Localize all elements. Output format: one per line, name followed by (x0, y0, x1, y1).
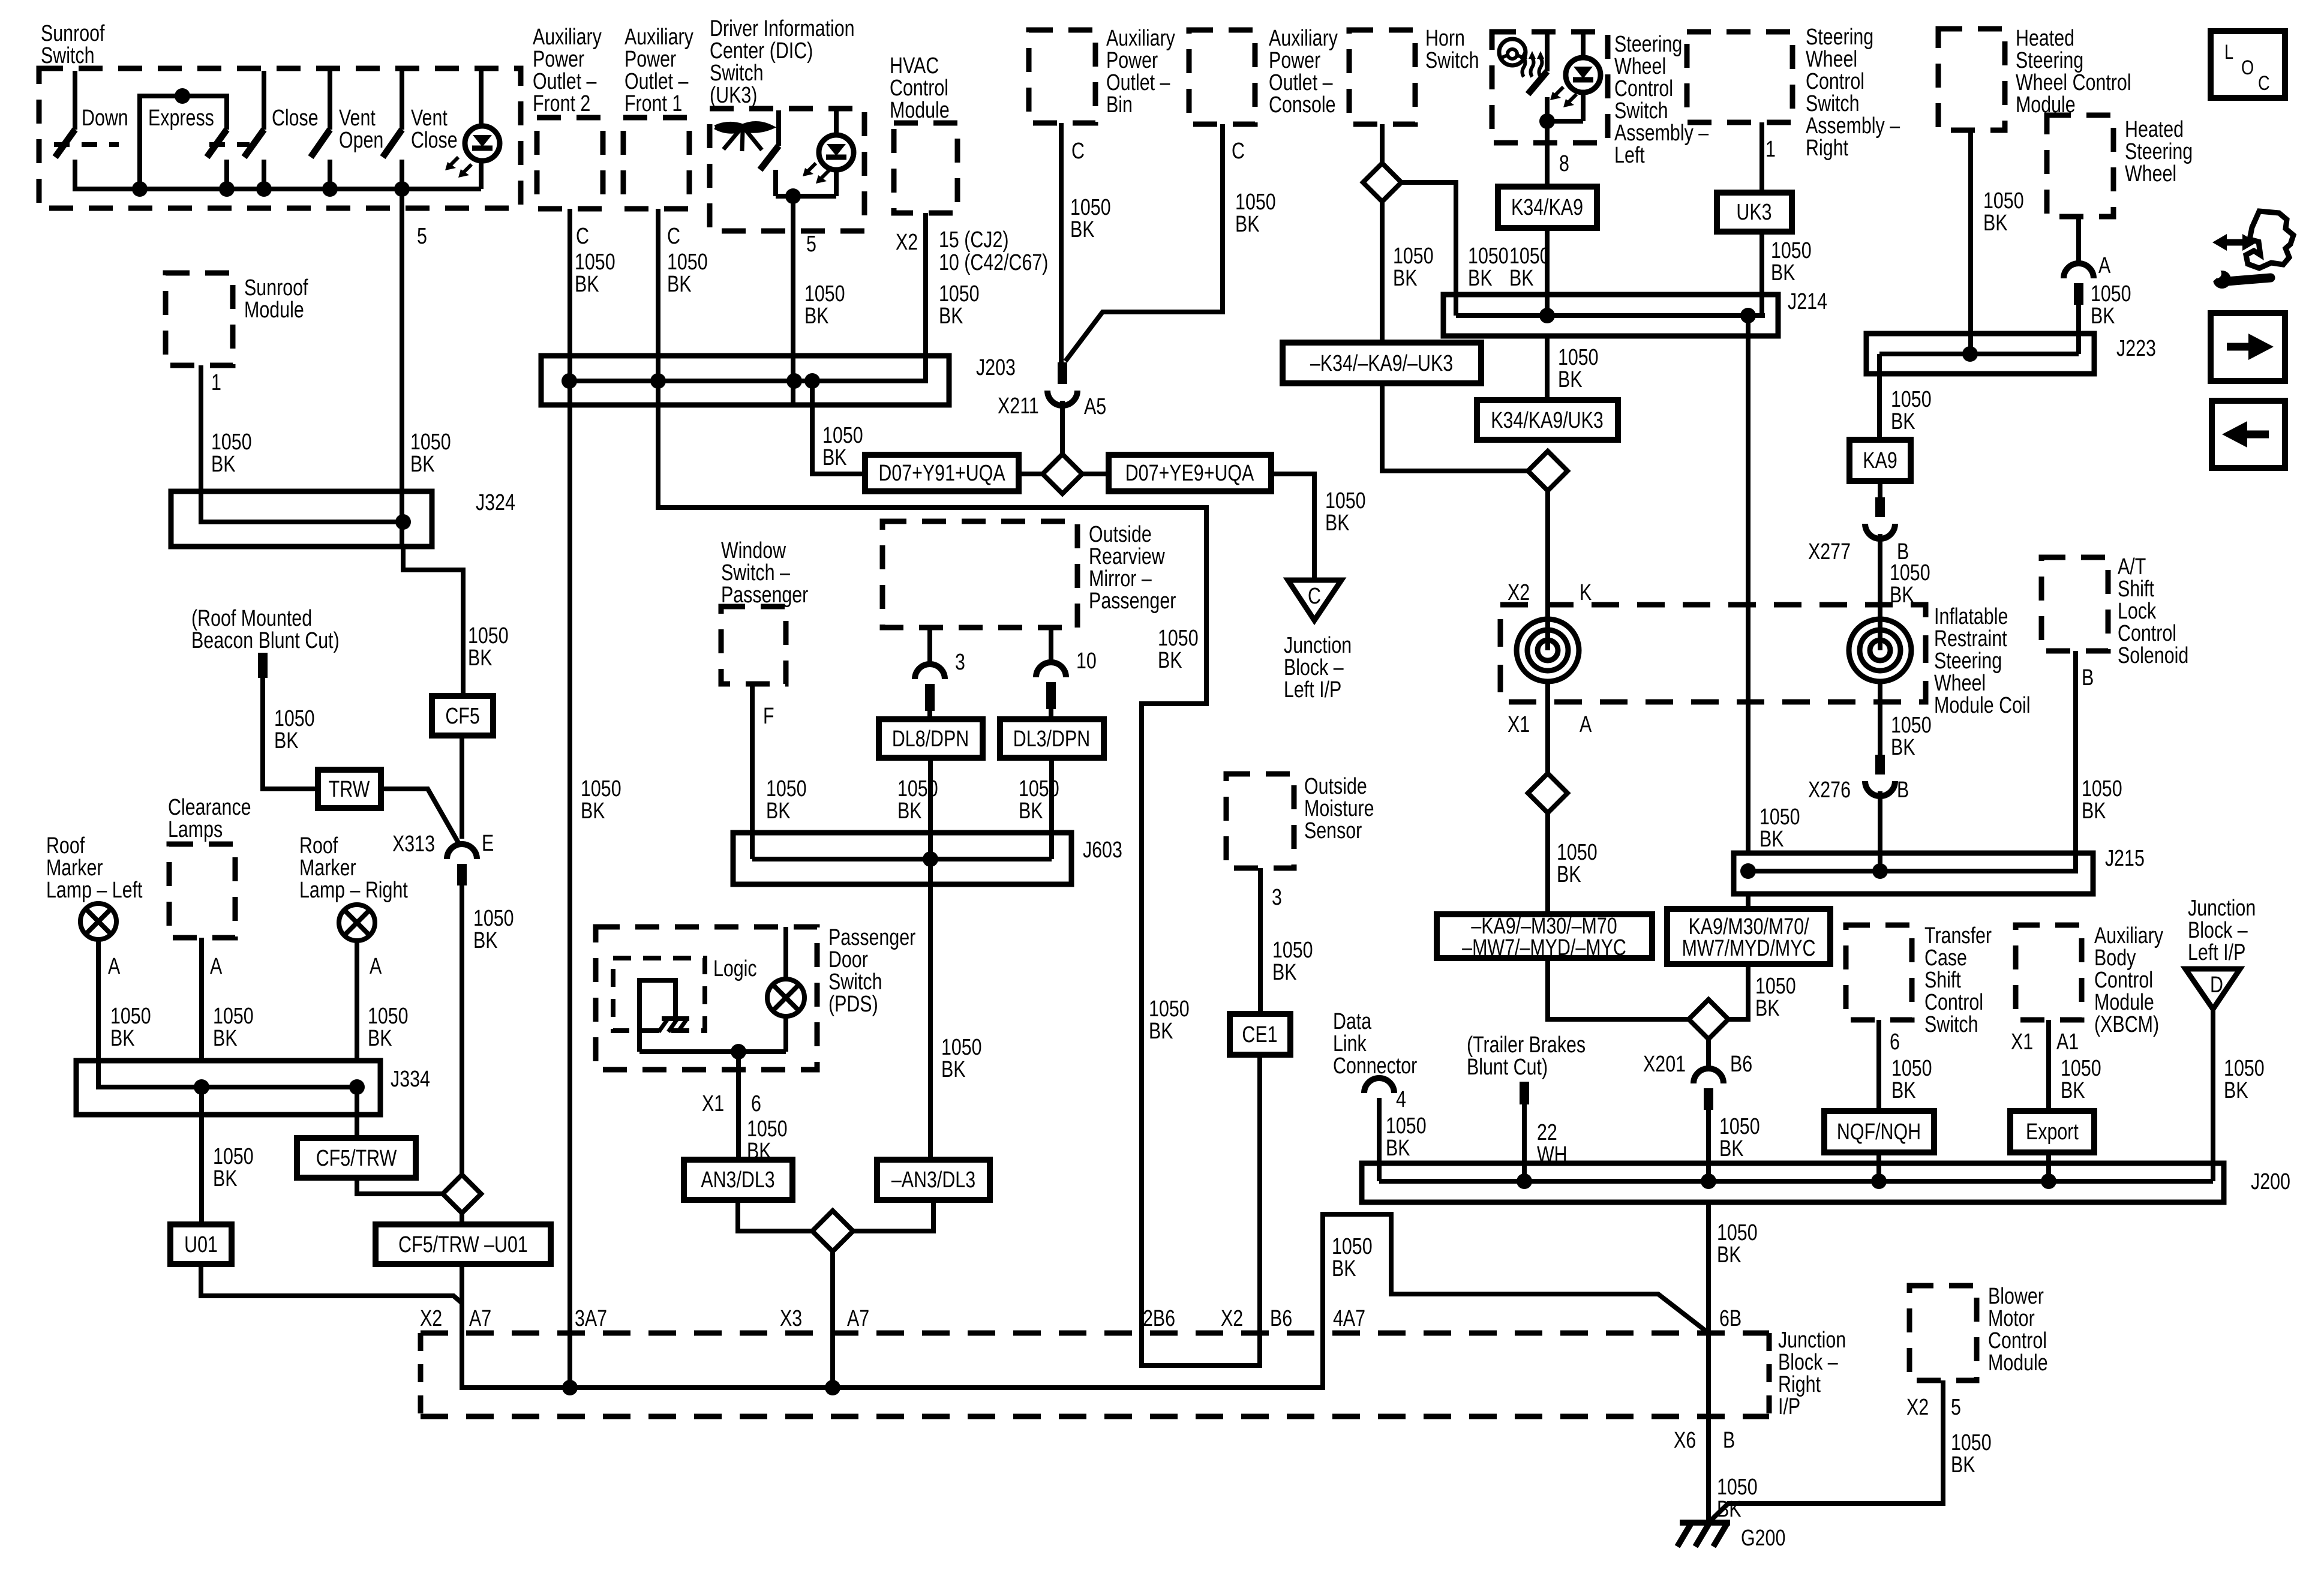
wire sunroof switch pin 5 to J324 (400, 189, 404, 547)
svg-text:J214: J214 (1788, 289, 1827, 314)
option box AN3/DL3 (684, 1160, 792, 1200)
wire clearance lamps pin A (199, 938, 204, 1061)
wire diamond to junction block X3-A7 (830, 1251, 835, 1388)
svg-text:SunroofModule: SunroofModule (244, 275, 308, 323)
DIC switch post and blade (776, 110, 781, 146)
wire NQF/NQH to J200 (1876, 1152, 1881, 1181)
switch Express bridge (140, 96, 227, 189)
svg-text:1050BK: 1050BK (1951, 1430, 1992, 1478)
svg-text:X2: X2 (1221, 1306, 1243, 1331)
svg-text:Export: Export (2026, 1119, 2079, 1145)
blower motor control module box (1909, 1286, 1977, 1380)
wire AN3/DL3 to diamond (738, 1200, 812, 1231)
wire CF5/TRW -U01 to junction block right pin A7 (460, 1264, 464, 1386)
svg-text:1050BK: 1050BK (939, 281, 980, 329)
svg-text:C: C (1071, 139, 1085, 164)
svg-text:L: L (2224, 40, 2233, 64)
svg-text:SteeringWheelControlSwitchAsse: SteeringWheelControlSwitchAssembly –Left (1614, 32, 1709, 168)
aux power outlet front 2 box (537, 118, 603, 209)
option box KA9/M30/M70/MW7/MYD/MYC (1667, 909, 1830, 964)
junction block J214 (1443, 295, 1778, 336)
wire clearance through J334 to U01 (199, 1087, 204, 1224)
svg-text:X201: X201 (1643, 1052, 1686, 1077)
node J214 splice out (1740, 308, 1756, 323)
wire diamond to D07+YE9 box (1082, 472, 1109, 476)
terminal mirror pin 10 (1046, 682, 1056, 709)
switch Vent Open (328, 71, 332, 130)
wire coil right to X276 (1878, 682, 1882, 755)
svg-text:Express: Express (148, 106, 214, 131)
wire CF5/TRW to diamond (357, 1178, 443, 1194)
svg-text:4: 4 (1396, 1087, 1406, 1112)
junction block left IP triangle C (1288, 580, 1341, 620)
svg-text:(Roof MountedBeacon Blunt Cut): (Roof MountedBeacon Blunt Cut) (191, 606, 340, 653)
svg-text:A5: A5 (1084, 394, 1106, 419)
aux power outlet bin box (1029, 30, 1095, 123)
node J200 splice 3 (1871, 1173, 1887, 1189)
svg-text:6: 6 (751, 1091, 761, 1116)
A/T shift lock control solenoid box (2041, 557, 2108, 651)
svg-text:1050BK: 1050BK (1890, 560, 1930, 608)
svg-text:BlowerMotorControlModule: BlowerMotorControlModule (1988, 1284, 2048, 1376)
wire front1 pin C to J203 (656, 209, 660, 405)
svg-text:1050BK: 1050BK (1149, 996, 1190, 1044)
svg-text:TRW: TRW (329, 777, 370, 802)
wire K34/KA9 to J214 (1545, 228, 1550, 316)
svg-text:1050BK: 1050BK (1891, 1056, 1932, 1103)
svg-text:RoofMarkerLamp – Left: RoofMarkerLamp – Left (46, 833, 143, 903)
sunroof switch LED (465, 126, 500, 161)
svg-text:D07+YE9+UQA: D07+YE9+UQA (1125, 461, 1254, 486)
svg-text:5: 5 (1951, 1395, 1961, 1420)
svg-text:1050BK: 1050BK (1235, 190, 1276, 237)
svg-text:E: E (482, 831, 494, 856)
svg-text:3A7: 3A7 (575, 1306, 607, 1331)
svg-text:1050BK: 1050BK (575, 250, 615, 297)
svg-text:JunctionBlock –Left I/P: JunctionBlock –Left I/P (1284, 633, 1352, 703)
wire horn diamond to J214 (1401, 182, 1456, 316)
option box DL8/DPN (879, 719, 983, 758)
wire mirror 10 to DL3/DPN (1049, 709, 1053, 719)
DIC LED (834, 110, 839, 135)
splice diamond D07 (1043, 454, 1082, 494)
wire steering right pin 1 to UK3 (1759, 122, 1764, 193)
switch coupling dashed link (54, 142, 119, 147)
svg-text:X211: X211 (998, 394, 1039, 419)
switch Down (73, 71, 77, 130)
ground G200 (1680, 1520, 1730, 1526)
svg-text:Close: Close (272, 106, 319, 131)
svg-text:B: B (1723, 1428, 1735, 1453)
svg-text:1050BK: 1050BK (1158, 626, 1199, 673)
svg-text:DL8/DPN: DL8/DPN (892, 727, 969, 752)
svg-text:Logic: Logic (713, 956, 757, 981)
svg-text:4A7: 4A7 (1333, 1306, 1365, 1331)
wire HSWCM to J223 (1968, 130, 1973, 354)
wire X211 to splice diamond (1060, 401, 1065, 454)
wire J214 to J215 (1746, 316, 1750, 853)
svg-text:O: O (2241, 56, 2254, 79)
sunroof LED light arrows (448, 157, 458, 167)
svg-text:J215: J215 (2105, 846, 2145, 871)
connector X276 cup (1865, 781, 1895, 796)
svg-text:1: 1 (211, 370, 221, 395)
wire beacon to TRW (263, 678, 318, 789)
wire diamond to D07+Y91 box (1019, 472, 1043, 476)
connector X313 cup (447, 844, 477, 859)
wire PDS X1-6 to AN3/DL3 (736, 1052, 741, 1160)
node J203 splice D (804, 373, 820, 389)
svg-text:1050BK: 1050BK (1983, 188, 2024, 236)
splice diamond below coil (1528, 773, 1568, 813)
sunroof switch enclosure (39, 68, 521, 208)
svg-text:C: C (1232, 139, 1245, 164)
svg-text:DL3/DPN: DL3/DPN (1013, 727, 1090, 752)
wire X276 to J215 (1878, 791, 1882, 871)
wire J324 to CF5 (403, 547, 463, 696)
svg-text:TransferCaseShiftControlSwitch: TransferCaseShiftControlSwitch (1924, 923, 1992, 1037)
svg-text:1050BK: 1050BK (822, 423, 863, 470)
wire J203 to D07+Y91+UQA (812, 381, 865, 474)
repair info icon wrench (2227, 278, 2271, 281)
express bridge junction (175, 88, 190, 104)
wire TRW to X313 (381, 789, 460, 845)
option box -K34/-KA9/-UK3 (1283, 343, 1481, 383)
svg-text:J324: J324 (476, 490, 515, 515)
fuse box CF5/TRW -U01 (376, 1224, 551, 1264)
svg-text:10: 10 (1076, 649, 1097, 674)
roof marker lamp right (339, 905, 375, 941)
wire HVAC X2 to J203 (923, 213, 928, 381)
wire XBCM X1-A1 to Export (2046, 1020, 2051, 1111)
svg-text:15 (CJ2): 15 (CJ2) (939, 227, 1009, 253)
svg-text:1050BK: 1050BK (1558, 345, 1599, 392)
wire DL3/DPN to J603 (1049, 758, 1054, 859)
junction block J324 (171, 491, 432, 547)
wire diamond to CF5/TRW -U01 box (460, 1213, 464, 1224)
node J603 splice (923, 851, 938, 867)
svg-text:1050BK: 1050BK (2224, 1056, 2265, 1103)
wire -AN3/DL3 to diamond (853, 1200, 933, 1231)
option box Export (2010, 1111, 2094, 1152)
svg-text:Driver InformationCenter (DIC): Driver InformationCenter (DIC)Switch(UK3… (710, 16, 855, 108)
connector HSW cup (2064, 263, 2094, 278)
svg-text:C: C (667, 224, 680, 249)
svg-text:3: 3 (1272, 885, 1282, 910)
junction block right internal bus (462, 1214, 1709, 1388)
fuse box CF5/TRW (297, 1138, 416, 1178)
fuse box K34/KA9 (1498, 187, 1597, 228)
svg-text:X2: X2 (420, 1306, 442, 1331)
wire CF5 to X313 (460, 736, 464, 839)
connector X211 terminal (1058, 362, 1067, 384)
svg-text:JunctionBlock –RightI/P: JunctionBlock –RightI/P (1778, 1328, 1846, 1419)
svg-text:G200: G200 (1741, 1526, 1785, 1551)
svg-text:A: A (1580, 712, 1592, 737)
wire -KA9 box to X201 diamond (1548, 958, 1689, 1019)
steering left switch post and blade (1545, 32, 1550, 71)
PDS logic internal loop (639, 980, 675, 1052)
svg-text:CF5/TRW –U01: CF5/TRW –U01 (398, 1232, 528, 1257)
wire sunroof module pin 1 to J324 (199, 365, 203, 522)
svg-text:1050BK: 1050BK (213, 1144, 254, 1191)
wire mirror pin 10 (1049, 628, 1053, 664)
node J200 splice 4 (2041, 1173, 2056, 1189)
svg-text:J223: J223 (2116, 336, 2156, 361)
steering wheel icon (1499, 39, 1526, 65)
svg-text:HeatedSteeringWheel ControlMod: HeatedSteeringWheel ControlModule (2016, 26, 2131, 118)
wire steering left pin 8 to K34/KA9 (1545, 121, 1550, 187)
forward arrow box (2211, 313, 2285, 381)
svg-text:AuxiliaryBodyControlModule(XBC: AuxiliaryBodyControlModule(XBCM) (2094, 923, 2164, 1037)
node J203 splice C (786, 373, 802, 389)
svg-text:A1: A1 (2056, 1029, 2079, 1055)
junction block J203 (541, 356, 949, 405)
wire J603 to -AN3/DL3 (928, 884, 933, 1160)
aux power outlet front 1 box (623, 118, 689, 209)
svg-text:NQF/NQH: NQF/NQH (1837, 1119, 1921, 1145)
svg-text:PassengerDoorSwitch(PDS): PassengerDoorSwitch(PDS) (828, 925, 915, 1017)
svg-text:WindowSwitch –Passenger: WindowSwitch –Passenger (721, 538, 808, 608)
svg-text:OutsideMoistureSensor: OutsideMoistureSensor (1304, 774, 1374, 843)
transfer case shift control switch box (1846, 925, 1912, 1020)
svg-text:3: 3 (955, 650, 965, 675)
svg-text:MW7/MYD/MYC: MW7/MYD/MYC (1682, 936, 1816, 961)
junction block J200 (1362, 1163, 2224, 1202)
svg-text:OutsideRearviewMirror –Passeng: OutsideRearviewMirror –Passenger (1089, 522, 1176, 614)
wire horn diamond to -K34 box (1380, 202, 1385, 343)
svg-text:1050BK: 1050BK (1717, 1475, 1758, 1522)
outside rearview mirror box (882, 521, 1077, 628)
svg-text:B6: B6 (1270, 1306, 1292, 1331)
svg-text:Down: Down (82, 106, 128, 131)
svg-text:10 (C42/C67): 10 (C42/C67) (939, 250, 1048, 275)
svg-text:X276: X276 (1808, 778, 1851, 803)
wire transfer case pin 6 to NQF/NQH (1876, 1020, 1881, 1111)
wire roof marker left pin A (96, 939, 101, 1061)
wire X313 to junction block A7 (460, 885, 464, 1175)
svg-text:1050BK: 1050BK (1755, 974, 1796, 1021)
svg-text:1050BK: 1050BK (1557, 840, 1598, 887)
svg-text:1050BK: 1050BK (747, 1116, 788, 1164)
svg-text:AuxiliaryPowerOutlet –Bin: AuxiliaryPowerOutlet –Bin (1106, 26, 1176, 118)
back arrow (2247, 431, 2269, 439)
svg-text:1050BK: 1050BK (1891, 387, 1932, 434)
svg-text:VentClose: VentClose (411, 106, 458, 153)
connector HSW terminal (2074, 283, 2083, 305)
svg-text:X1: X1 (702, 1091, 724, 1116)
svg-text:A7: A7 (469, 1306, 491, 1331)
fuse box UK3 (1717, 193, 1792, 232)
connector X276 terminal (1875, 755, 1885, 775)
svg-text:D: D (2210, 972, 2223, 998)
svg-text:1050BK: 1050BK (1719, 1114, 1760, 1161)
junction block right IP box (421, 1331, 1769, 1336)
svg-text:1050BK: 1050BK (581, 776, 621, 824)
svg-text:1050BK: 1050BK (1325, 488, 1366, 536)
svg-text:K34/KA9: K34/KA9 (1511, 195, 1583, 220)
wire roof marker right pin A (355, 941, 359, 1061)
DIC switch box (710, 109, 864, 231)
svg-text:CF5/TRW: CF5/TRW (316, 1146, 397, 1171)
svg-text:5: 5 (417, 224, 427, 249)
node J223 splice (1962, 346, 1978, 362)
svg-text:1050BK: 1050BK (473, 906, 514, 953)
wire KA9 to X277 (1878, 481, 1882, 497)
terminal mirror pin 3 (925, 684, 935, 711)
wire front2 pin C long drop (568, 209, 572, 1388)
repair info icon double arrow (2220, 239, 2250, 246)
svg-text:1050BK: 1050BK (213, 1004, 254, 1051)
node J215 splice B (1872, 863, 1888, 879)
passenger door switch box (596, 927, 817, 1070)
svg-text:1050BK: 1050BK (110, 1004, 151, 1051)
svg-text:1050BK: 1050BK (2091, 281, 2131, 329)
option box NQF/NQH (1824, 1111, 1934, 1152)
wire diamond to coil X2-K (1545, 491, 1550, 619)
fuse box CF5 (432, 696, 493, 736)
heated wheel waves icon (1523, 58, 1526, 77)
node J203 splice A (562, 373, 577, 389)
svg-text:1050BK: 1050BK (766, 776, 807, 824)
svg-text:1050BK: 1050BK (2061, 1056, 2101, 1103)
PDS lamp (783, 927, 788, 979)
svg-text:CE1: CE1 (1242, 1022, 1277, 1047)
node express-bus (132, 181, 148, 197)
splice diamond X201 (1689, 999, 1728, 1039)
svg-text:VentOpen: VentOpen (339, 106, 383, 153)
svg-text:1050BK: 1050BK (667, 250, 708, 297)
wire D07+YE9 to junction block C (1271, 474, 1314, 580)
node J324 splice (395, 514, 411, 530)
fuse box TRW (318, 770, 381, 808)
DIC switch lower contact (773, 170, 778, 196)
inflatable restraint coil box (1500, 605, 1926, 702)
svg-text:X313: X313 (392, 831, 435, 857)
svg-text:1050BK: 1050BK (1468, 244, 1509, 291)
svg-text:AuxiliaryPowerOutlet –Front 2: AuxiliaryPowerOutlet –Front 2 (533, 25, 602, 116)
DIC internal bus (776, 194, 836, 199)
node right IP splice 1 (562, 1380, 578, 1395)
svg-text:1: 1 (1765, 137, 1776, 162)
wire J214 to K34/KA9/UK3 (1545, 336, 1550, 400)
svg-text:J603: J603 (1083, 837, 1122, 863)
svg-text:1050BK: 1050BK (468, 623, 509, 671)
coil spiral left (1517, 619, 1579, 682)
svg-text:A/TShiftLockControlSolenoid: A/TShiftLockControlSolenoid (2118, 554, 2188, 668)
auxiliary body control module box (2016, 925, 2082, 1020)
svg-text:SunroofSwitch: SunroofSwitch (41, 21, 105, 68)
svg-text:6B: 6B (1719, 1306, 1742, 1331)
wire DLC pin 4 to J200 (1377, 1098, 1382, 1181)
fuse box CE1 (1230, 1014, 1290, 1055)
svg-text:22WH: 22WH (1537, 1120, 1568, 1167)
svg-text:1050BK: 1050BK (1070, 195, 1111, 242)
svg-text:1050BK: 1050BK (804, 281, 845, 329)
node J203 splice B (650, 373, 666, 389)
wire triangle D to J200 (2211, 1009, 2215, 1181)
svg-text:X1: X1 (1508, 712, 1530, 737)
data link connector cup (1364, 1078, 1394, 1093)
svg-text:DataLinkConnector: DataLinkConnector (1333, 1009, 1417, 1079)
node J215 splice A (1740, 863, 1756, 879)
connector X211 cup (1047, 391, 1077, 406)
back arrow box (2212, 401, 2285, 468)
svg-text:1050BK: 1050BK (1386, 1113, 1427, 1161)
connector X313 terminal (457, 864, 467, 885)
PDS logic ground symbol (662, 1016, 689, 1021)
svg-text:D07+Y91+UQA: D07+Y91+UQA (878, 461, 1005, 486)
wire window switch pin F to J603 (750, 684, 755, 859)
forward arrow (2227, 343, 2248, 351)
svg-text:6: 6 (1890, 1029, 1900, 1055)
svg-text:AuxiliaryPowerOutlet –Front 1: AuxiliaryPowerOutlet –Front 1 (624, 25, 694, 116)
switch Express blade (207, 130, 227, 157)
svg-text:ClearanceLamps: ClearanceLamps (168, 795, 251, 842)
steering left LED arrows (1553, 87, 1563, 97)
fuse box U01 (170, 1224, 232, 1264)
svg-text:J334: J334 (391, 1067, 430, 1092)
wire coil left to X1-A diamond (1545, 682, 1550, 773)
repair info icon fist (2246, 211, 2293, 268)
DIC LED light arrows (806, 163, 816, 173)
roof marker lamp left (80, 903, 116, 939)
steering left internal bus (1547, 119, 1583, 124)
fuse box KA9 (1849, 440, 1911, 481)
wire blower X2-5 to ground (1709, 1380, 1943, 1523)
HVAC control module box (894, 123, 957, 213)
steering left LED (1581, 32, 1586, 58)
wire DIC pin 5 to J203 (791, 196, 795, 405)
svg-text:1050BK: 1050BK (1891, 713, 1932, 760)
svg-text:A: A (2098, 253, 2110, 278)
wire UK3 to J214 (1759, 232, 1764, 316)
node steering left output (1539, 113, 1555, 129)
svg-text:U01: U01 (184, 1232, 218, 1257)
window switch passenger box (721, 607, 786, 684)
PDS logic box (613, 958, 705, 1031)
svg-text:1050BK: 1050BK (1272, 938, 1313, 985)
svg-text:X277: X277 (1808, 539, 1851, 565)
LOC reference box (2211, 31, 2285, 98)
svg-text:A: A (370, 954, 382, 979)
svg-text:X1: X1 (2011, 1029, 2033, 1055)
svg-text:C: C (1308, 584, 1321, 609)
option box DL3/DPN (1000, 719, 1104, 758)
svg-text:1050BK: 1050BK (211, 430, 252, 477)
sunroof module box (166, 273, 233, 365)
option box -KA9/-M30/-M70/-MW7/-MYD/-MYC (1437, 914, 1652, 958)
wire mirror 3 to DL8/DPN (927, 711, 932, 719)
wire horn switch to diamond (1380, 124, 1385, 163)
svg-text:1050BK: 1050BK (2082, 776, 2122, 824)
PDS internal bus (639, 1049, 786, 1054)
svg-text:1050BK: 1050BK (1771, 238, 1812, 286)
svg-text:KA9: KA9 (1863, 448, 1897, 473)
connector X201 cup (1694, 1068, 1724, 1083)
svg-text:UK3: UK3 (1736, 200, 1771, 225)
steering left lower contact (1545, 97, 1550, 121)
sunroof switch bottom bus (75, 160, 481, 189)
wire X201 diamond down (1706, 1039, 1711, 1070)
node J334 splice 1 (194, 1079, 209, 1095)
steering wheel control switch left box (1492, 32, 1608, 143)
svg-text:RoofMarkerLamp – Right: RoofMarkerLamp – Right (299, 833, 408, 903)
svg-text:–K34/–KA9/–UK3: –K34/–KA9/–UK3 (1310, 351, 1453, 376)
svg-text:HVACControlModule: HVACControlModule (890, 53, 950, 123)
svg-text:B: B (1897, 778, 1909, 803)
wire X201 to J200 (1706, 1110, 1711, 1181)
